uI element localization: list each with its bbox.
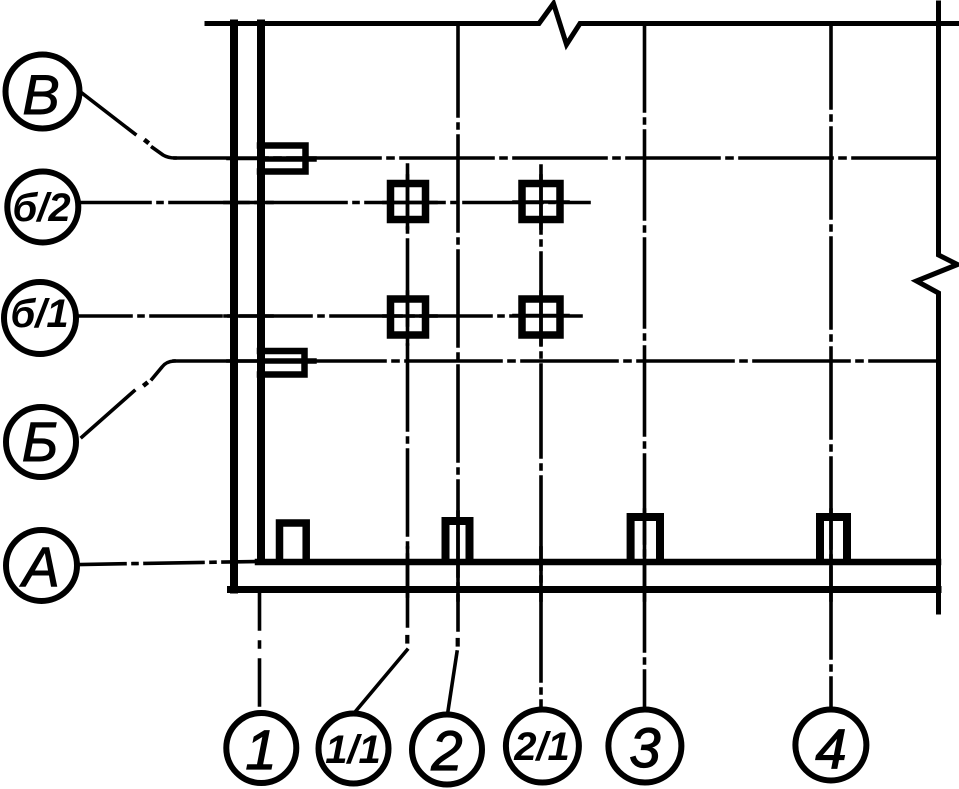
wall: right vertical line — [257, 24, 265, 562]
wall: bottom horizontal bottom line — [231, 586, 939, 593]
svg-text:2: 2 — [430, 719, 462, 782]
pilaster near axis 1 on bottom wall — [280, 523, 307, 560]
pilaster at axis 4 on bottom wall — [820, 517, 847, 560]
pilaster at axis 3 on bottom wall — [631, 517, 660, 560]
svg-text:В: В — [22, 63, 59, 126]
svg-text:б/2: б/2 — [12, 186, 70, 230]
axis 3 vertical dash-dot — [643, 26, 647, 706]
svg-text:Б: Б — [22, 410, 58, 473]
axis 2 vertical dash-dot — [456, 26, 460, 630]
axis 1 vertical dash-dot below wall — [258, 592, 262, 711]
circle axis б/1 — [4, 282, 76, 354]
circle axis 3 — [608, 710, 681, 783]
axis 2 leader to circle — [448, 652, 457, 711]
circle axis Б — [6, 407, 76, 477]
circle axis б/2 — [7, 172, 78, 243]
svg-text:1/1: 1/1 — [325, 728, 381, 772]
svg-text:А: А — [19, 535, 59, 598]
circle axis A — [6, 530, 77, 601]
axis 4 vertical dash-dot — [829, 26, 833, 706]
axis line A horizontal dash-dot — [80, 562, 256, 565]
svg-text:4: 4 — [815, 717, 846, 780]
circle axis B(Cyr V) — [6, 55, 80, 129]
column square 2/1-б/2 — [522, 184, 560, 220]
axis line B(Cyr V) horizontal dash-dot — [80, 92, 938, 159]
axis 2/1 vertical dash-dot — [539, 166, 543, 707]
column square 2/1-б/1 — [522, 299, 560, 335]
right boundary line with break symbol — [917, 3, 958, 612]
svg-text:1: 1 — [245, 718, 276, 781]
wall: left vertical line — [230, 24, 238, 590]
svg-text:б/1: б/1 — [10, 292, 68, 336]
wall: bottom horizontal top line — [258, 559, 938, 566]
circle axis 1/1 — [319, 714, 389, 784]
column square 1/1-б/1 — [391, 299, 426, 335]
circle axis 4 — [795, 710, 866, 781]
axis line Б horizontal dash-dot — [82, 361, 938, 437]
axis 1/1 vertical dash-dot — [406, 165, 410, 626]
circle axis 1 — [226, 713, 296, 783]
pilaster at axis 2 on bottom wall — [446, 521, 470, 560]
column square 1/1-б/2 — [391, 184, 426, 220]
svg-text:3: 3 — [629, 716, 660, 779]
circle axis 2/1 — [506, 710, 579, 783]
axis line б/2 horizontal dash-dot — [80, 201, 589, 205]
pilaster at axis B(Cyr V) on vertical wall — [260, 146, 306, 172]
axis line б/1 horizontal dash-dot — [76, 314, 589, 318]
axis 1/1 leader to circle — [355, 650, 407, 712]
wire: solid axis overlays at wall crossings — [225, 159, 831, 601]
pilaster at axis Б on vertical wall — [260, 351, 305, 375]
top boundary line with break symbol — [207, 4, 959, 45]
circle axis 2 — [412, 715, 482, 785]
svg-text:2/1: 2/1 — [513, 725, 570, 769]
